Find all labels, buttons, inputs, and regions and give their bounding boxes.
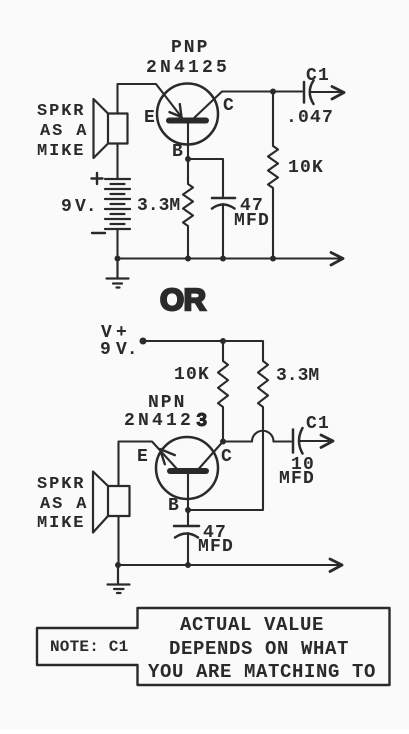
svg-text:2N4125: 2N4125 <box>146 58 230 78</box>
svg-text:MIKE: MIKE <box>37 142 85 161</box>
svg-text:V.: V. <box>116 340 138 360</box>
svg-text:YOU ARE MATCHING TO: YOU ARE MATCHING TO <box>148 661 376 683</box>
svg-text:E: E <box>137 447 149 467</box>
svg-text:V.: V. <box>75 197 97 217</box>
svg-text:DEPENDS ON WHAT: DEPENDS ON WHAT <box>169 638 349 660</box>
svg-text:NPN: NPN <box>148 393 186 413</box>
svg-text:3.3M: 3.3M <box>137 196 180 216</box>
svg-text:10K: 10K <box>288 158 324 178</box>
svg-text:B: B <box>168 496 180 516</box>
svg-text:OR: OR <box>160 282 206 317</box>
svg-text:E: E <box>144 108 156 128</box>
svg-text:SPKR: SPKR <box>37 102 85 121</box>
svg-text:3: 3 <box>196 410 211 432</box>
svg-text:ACTUAL VALUE: ACTUAL VALUE <box>180 614 324 636</box>
svg-text:MFD: MFD <box>234 211 270 231</box>
svg-text:10K: 10K <box>174 365 210 385</box>
svg-text:C: C <box>223 96 235 116</box>
svg-text:9: 9 <box>100 340 111 360</box>
svg-text:9: 9 <box>61 197 72 217</box>
svg-text:PNP: PNP <box>171 38 209 58</box>
svg-text:SPKR: SPKR <box>37 475 85 494</box>
svg-text:MFD: MFD <box>279 469 315 489</box>
svg-text:MIKE: MIKE <box>37 514 85 533</box>
svg-text:NOTE: C1: NOTE: C1 <box>50 638 128 656</box>
svg-text:MFD: MFD <box>198 537 234 557</box>
svg-text:2N412: 2N412 <box>124 411 194 431</box>
svg-text:3.3M: 3.3M <box>276 366 319 386</box>
svg-text:B: B <box>172 142 184 162</box>
svg-text:C1: C1 <box>306 414 330 434</box>
svg-text:.047: .047 <box>286 108 334 128</box>
svg-text:AS A: AS A <box>40 122 88 141</box>
svg-text:C: C <box>221 447 233 467</box>
svg-text:C1: C1 <box>306 66 330 86</box>
svg-text:AS A: AS A <box>40 495 88 514</box>
